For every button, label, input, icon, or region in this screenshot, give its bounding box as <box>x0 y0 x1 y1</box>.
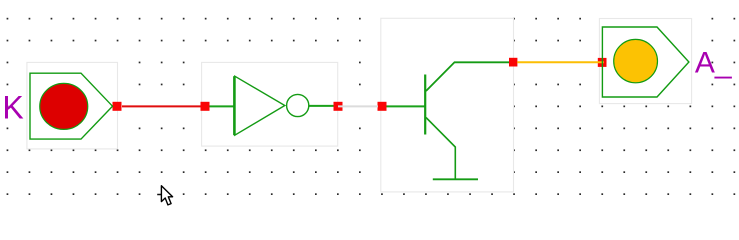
svg-text:A_: A_ <box>695 47 733 80</box>
svg-text:K: K <box>2 90 23 126</box>
